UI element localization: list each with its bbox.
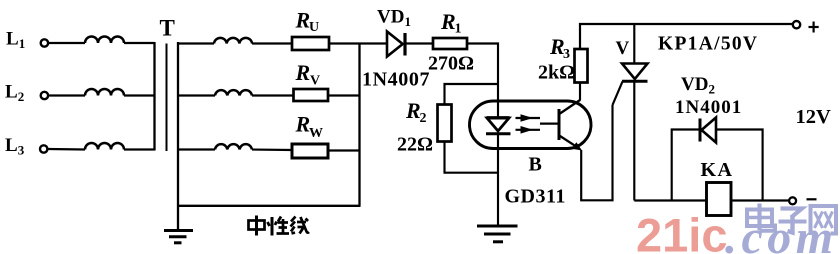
label V bbox=[616, 38, 630, 59]
transformer T core bbox=[166, 44, 168, 152]
wire bbox=[252, 42, 292, 44]
svg-text:GD311: GD311 bbox=[505, 186, 566, 208]
wire bbox=[252, 148, 292, 151]
LED inside optocoupler bbox=[486, 118, 511, 134]
wire bbox=[178, 42, 214, 44]
inductor secondary winding V bbox=[215, 90, 252, 95]
svg-text:1: 1 bbox=[455, 22, 462, 37]
wire bbox=[48, 148, 85, 151]
svg-text:KA: KA bbox=[701, 159, 734, 181]
resistor RU bbox=[292, 37, 329, 50]
resistor R3 bbox=[575, 49, 588, 83]
terminal + bbox=[793, 21, 800, 28]
wire gate to emitter bbox=[581, 105, 612, 200]
label + bbox=[809, 22, 819, 33]
wire summing bus bbox=[358, 43, 360, 206]
watermark .com bbox=[725, 211, 838, 254]
label R1 bbox=[440, 9, 462, 37]
wire positive rail bbox=[580, 24, 793, 49]
wire neutral line bbox=[178, 205, 361, 207]
wire bbox=[124, 94, 155, 96]
label - bbox=[807, 198, 817, 200]
label L1 bbox=[6, 29, 25, 52]
svg-text:270Ω: 270Ω bbox=[428, 53, 474, 75]
transformer T primary bus bbox=[153, 42, 155, 151]
wire bbox=[178, 148, 215, 150]
wire bbox=[445, 142, 499, 173]
wire bbox=[579, 83, 581, 101]
inductor secondary winding U bbox=[214, 38, 252, 44]
svg-text:R: R bbox=[440, 9, 456, 34]
wire bbox=[407, 42, 434, 44]
label 2k ohm bbox=[538, 62, 575, 84]
terminal L2 bbox=[41, 92, 48, 99]
label 22 ohm bbox=[397, 134, 433, 156]
watermark 21ic bbox=[636, 209, 727, 254]
label L2 bbox=[5, 82, 24, 105]
svg-text:T: T bbox=[160, 16, 175, 41]
relay coil KA bbox=[707, 183, 732, 216]
terminal - bbox=[789, 197, 796, 204]
diode VD2 bbox=[700, 118, 716, 143]
resistor RW bbox=[292, 144, 328, 158]
label 270 ohm bbox=[428, 53, 474, 75]
svg-text:R: R bbox=[295, 8, 311, 33]
label T bbox=[160, 16, 175, 41]
label KP1A/50V bbox=[658, 34, 758, 55]
transformer T secondary bus bbox=[177, 42, 179, 230]
resistor R1 bbox=[433, 38, 467, 49]
svg-text:21ic: 21ic bbox=[636, 209, 727, 254]
resistor RV bbox=[294, 89, 329, 101]
label RU bbox=[295, 8, 320, 36]
thyristor V bbox=[613, 24, 648, 201]
inductor primary winding W bbox=[85, 143, 124, 150]
label GD311 bbox=[505, 186, 566, 208]
wire bbox=[48, 42, 85, 44]
svg-text:2: 2 bbox=[420, 111, 427, 126]
label VD1 bbox=[377, 7, 411, 30]
label L3 bbox=[5, 135, 25, 158]
svg-text:2kΩ: 2kΩ bbox=[538, 62, 575, 84]
wire R2 branch bbox=[445, 84, 499, 105]
wire bbox=[328, 94, 360, 96]
svg-text:U: U bbox=[309, 20, 319, 35]
svg-text:R: R bbox=[295, 60, 311, 85]
label R3 bbox=[549, 34, 570, 62]
label KA bbox=[701, 159, 734, 181]
wire bbox=[497, 134, 499, 225]
label R2 bbox=[405, 98, 427, 126]
wire bbox=[48, 94, 85, 96]
svg-text:B: B bbox=[529, 154, 542, 176]
wire bbox=[124, 42, 155, 44]
svg-text:1N4001: 1N4001 bbox=[675, 97, 742, 118]
wire bbox=[467, 44, 498, 119]
label B bbox=[529, 154, 542, 176]
svg-text:W: W bbox=[309, 126, 323, 141]
terminal L3 bbox=[40, 145, 47, 152]
label 12V bbox=[796, 106, 832, 128]
label 1N4007 bbox=[362, 69, 430, 91]
wire bbox=[328, 149, 360, 151]
svg-text:R: R bbox=[405, 98, 421, 123]
optocoupler B body bbox=[470, 101, 592, 149]
ground (optocoupler emitter side) bbox=[477, 226, 518, 242]
svg-text:V: V bbox=[616, 38, 630, 59]
phototransistor bbox=[559, 100, 582, 151]
optocoupler light arrows bbox=[516, 114, 559, 133]
svg-text:R: R bbox=[295, 112, 311, 137]
svg-text:3: 3 bbox=[563, 47, 570, 62]
wire negative rail left bbox=[634, 199, 706, 201]
wire bbox=[124, 148, 155, 150]
inductor secondary winding W bbox=[215, 144, 252, 149]
inductor primary winding V bbox=[85, 89, 124, 95]
label RW bbox=[295, 112, 324, 142]
label 1N4001 bbox=[675, 97, 742, 118]
diode VD1 bbox=[387, 32, 405, 57]
svg-text:12V: 12V bbox=[796, 106, 832, 128]
wire bbox=[329, 42, 387, 44]
svg-text:KP1A/50V: KP1A/50V bbox=[658, 34, 758, 55]
resistor R2 bbox=[438, 105, 452, 142]
label RV bbox=[295, 60, 321, 89]
terminal L1 bbox=[41, 39, 48, 46]
wire negative rail right bbox=[731, 199, 789, 201]
wire VD2 branch left bbox=[672, 130, 699, 201]
svg-text:22Ω: 22Ω bbox=[397, 134, 433, 156]
wire VD2 branch right bbox=[716, 130, 763, 201]
wire bbox=[252, 94, 294, 96]
svg-text:V: V bbox=[310, 74, 320, 89]
label 中性线 bbox=[249, 216, 310, 236]
label VD2 bbox=[681, 74, 715, 97]
ground (transformer neutral) bbox=[164, 231, 193, 243]
inductor primary winding U bbox=[85, 37, 124, 43]
svg-text:1N4007: 1N4007 bbox=[362, 69, 430, 91]
wire bbox=[178, 94, 215, 96]
watermark dianziwang bbox=[747, 204, 836, 236]
